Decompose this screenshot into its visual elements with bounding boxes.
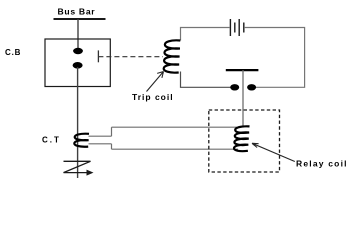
wire CT to relay coil bottom bbox=[112, 148, 239, 150]
CB contact dot upper bbox=[73, 48, 83, 54]
wire feeder lower (CB bottom dot to CT and below) bbox=[77, 67, 79, 178]
arrow to trip coil bbox=[147, 72, 164, 92]
svg-text:C.B: C.B bbox=[5, 48, 21, 57]
wire CT to relay coil top bbox=[112, 126, 239, 128]
arrow to relay coil bbox=[252, 143, 295, 161]
wire jog vertical top bbox=[111, 127, 113, 136]
earth fault arrow (zigzag with arrow) bbox=[64, 161, 94, 175]
bus bar bbox=[54, 18, 106, 20]
trip coil bbox=[164, 40, 181, 72]
CB contact dot lower bbox=[73, 62, 83, 69]
mechanical link dashed wire (CB to trip coil) bbox=[98, 56, 163, 58]
relay contact dot left bbox=[230, 84, 239, 90]
battery bbox=[230, 19, 243, 36]
svg-text:Relay coil: Relay coil bbox=[296, 159, 348, 169]
trip circuit top wire left segment bbox=[181, 28, 230, 41]
relay coil bbox=[234, 126, 250, 151]
CT coil bbox=[74, 134, 89, 147]
wire CT stub top bbox=[89, 135, 112, 137]
CB trip mechanism bar bbox=[97, 50, 99, 62]
wire CT stub bottom bbox=[89, 143, 112, 145]
relay dashed box bbox=[209, 110, 280, 172]
svg-text:Trip coil: Trip coil bbox=[132, 92, 174, 102]
relay contact dot right bbox=[247, 84, 256, 90]
wire feeder upper (bus bar to CB top contact) bbox=[77, 19, 79, 49]
svg-text:Bus Bar: Bus Bar bbox=[58, 7, 96, 17]
svg-text:C.T: C.T bbox=[42, 136, 61, 145]
circuit breaker C.B box bbox=[45, 39, 110, 87]
trip circuit bottom wire left segment bbox=[181, 72, 235, 88]
relay contact bar bbox=[226, 69, 259, 71]
wire jog vertical bottom bbox=[111, 144, 113, 149]
trip circuit top wire right segment and right wire bbox=[245, 28, 305, 88]
wire relay contact link (bar to relay coil) bbox=[242, 70, 244, 126]
